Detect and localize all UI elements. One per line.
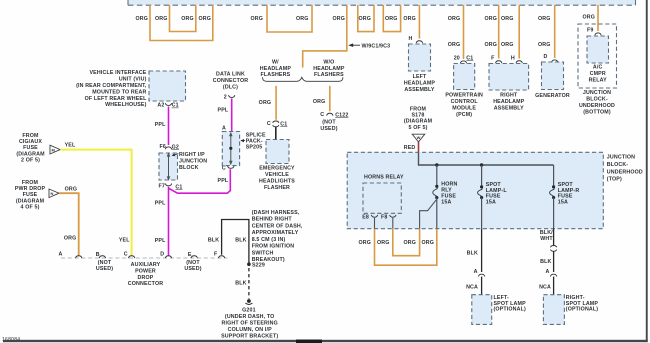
svg-text:C122: C122 [335, 112, 348, 118]
svg-text:JUNCTION: JUNCTION [583, 90, 611, 96]
svg-text:BLK: BLK [235, 237, 246, 243]
svg-text:F: F [214, 252, 218, 258]
svg-text:N: N [51, 191, 54, 196]
wire BLK dashed to ground [248, 268, 250, 299]
horns relay contact arm [420, 200, 437, 229]
svg-text:CIG/AUX: CIG/AUX [19, 139, 42, 145]
connector arc F7 [165, 184, 171, 186]
connector arc right spot lamp [550, 274, 556, 276]
svg-text:A: A [474, 269, 478, 275]
svg-text:ASSEMBLY: ASSEMBLY [404, 87, 434, 93]
svg-text:FLASHERS: FLASHERS [314, 72, 344, 78]
horns relay box [363, 183, 401, 213]
wire ORG to generator [554, 5, 556, 58]
wire ORG loop 2 [267, 5, 312, 32]
svg-text:RIGHT: RIGHT [500, 92, 518, 98]
power source triangle W [412, 134, 425, 142]
svg-text:2 OF 5): 2 OF 5) [21, 157, 40, 163]
connector arc generator [552, 60, 558, 62]
svg-text:ORG: ORG [582, 15, 595, 21]
svg-text:VEHICLE: VEHICLE [265, 172, 289, 178]
svg-text:H: H [409, 36, 413, 42]
auxiliary power drop connector row [61, 257, 228, 259]
svg-text:ORG: ORG [332, 16, 345, 22]
wire ORG to PCM [463, 5, 465, 59]
svg-text:PPL: PPL [155, 200, 166, 206]
svg-text:HORNS RELAY: HORNS RELAY [364, 175, 404, 181]
svg-text:ORG: ORG [198, 16, 211, 22]
svg-text:(TOP): (TOP) [607, 177, 622, 183]
connector arc left spot lamp [478, 274, 484, 276]
svg-text:A/C: A/C [593, 65, 603, 71]
wire ORG to left headlamp [418, 5, 420, 39]
wire BLK to right spot lamp [553, 251, 555, 272]
junction block-underhood (top) box [347, 152, 603, 228]
svg-text:DATA LINK: DATA LINK [216, 72, 245, 78]
svg-text:ORG: ORG [484, 16, 497, 22]
svg-text:FUSE: FUSE [23, 192, 38, 198]
wire stub into left spot lamp [481, 277, 483, 295]
svg-text:C1: C1 [280, 121, 287, 127]
connector arc E [191, 256, 197, 258]
svg-text:APPROXIMATELY: APPROXIMATELY [252, 230, 299, 236]
in-line connector C1 [273, 121, 279, 123]
svg-text:C: C [222, 166, 226, 172]
wire BLK stub into flasher [275, 127, 277, 140]
svg-text:ORG: ORG [135, 16, 148, 22]
powertrain control module box [454, 64, 475, 90]
connector arc B [99, 256, 105, 258]
svg-text:ORG: ORG [448, 16, 461, 22]
svg-text:UNDERHOOD: UNDERHOOD [579, 103, 615, 109]
svg-text:HEADLAMP: HEADLAMP [493, 99, 525, 105]
svg-text:F9: F9 [587, 28, 593, 34]
svg-text:ORG: ORG [448, 42, 461, 48]
svg-text:RIGHT OF STEERING: RIGHT OF STEERING [221, 320, 277, 326]
bus from RED feed [419, 153, 554, 165]
svg-text:ORG: ORG [359, 16, 372, 22]
wire below horn fuse [436, 198, 438, 229]
wire BLK from pin F [222, 220, 249, 263]
svg-text:W/O: W/O [323, 59, 334, 65]
wire below spot lamp-L fuse [481, 198, 483, 229]
connector arc H [516, 61, 522, 63]
connector arc F [496, 61, 502, 63]
connector arc left headlamp [416, 41, 422, 43]
svg-text:USED): USED) [184, 266, 201, 272]
wire ORG loop F8 to relay arm [393, 229, 420, 256]
svg-text:RIGHT I/P: RIGHT I/P [179, 152, 205, 158]
svg-text:5 OF 5): 5 OF 5) [408, 125, 427, 131]
splice S229 [247, 262, 251, 266]
svg-text:WHEELHOUSE): WHEELHOUSE) [105, 102, 146, 108]
svg-text:MOUNTED TO REAR: MOUNTED TO REAR [92, 89, 146, 95]
svg-text:UNDERHOOD: UNDERHOOD [607, 169, 643, 175]
svg-text:(OPTIONAL): (OPTIONAL) [566, 307, 598, 313]
svg-text:C1: C1 [466, 55, 473, 61]
svg-text:ORG: ORG [403, 16, 416, 22]
junction block-underhood (bottom) outer box [578, 24, 617, 88]
wire ORG to A/C cmpr relay [597, 5, 599, 31]
svg-text:W/: W/ [272, 59, 279, 65]
connector arc PCM [460, 61, 466, 63]
left-spot lamp box [472, 295, 492, 325]
svg-text:POWERTRAIN: POWERTRAIN [445, 92, 483, 98]
wire stub E8 [374, 218, 376, 229]
svg-text:(OPTIONAL): (OPTIONAL) [494, 307, 526, 313]
wire ORG [59, 193, 79, 255]
svg-text:CONTROL: CONTROL [451, 99, 479, 105]
right I/P junction block label arrow [173, 154, 179, 156]
svg-text:(DASH HARNESS,: (DASH HARNESS, [252, 210, 300, 216]
svg-text:8.5 CM (3 IN): 8.5 CM (3 IN) [252, 237, 286, 243]
svg-text:ORG: ORG [501, 16, 514, 22]
svg-text:PPL: PPL [218, 108, 229, 114]
connector arc VIU [165, 103, 171, 105]
svg-text:PPL: PPL [155, 238, 166, 244]
svg-text:15A: 15A [441, 199, 451, 205]
spot lamp-R fuse 15A [552, 185, 555, 188]
svg-text:ORG: ORG [64, 236, 77, 242]
svg-text:SP205: SP205 [246, 145, 263, 151]
svg-text:NCA: NCA [466, 284, 478, 290]
svg-text:BLK: BLK [208, 237, 219, 243]
wire ORG w/o flashers branch [329, 86, 331, 111]
connector arc F9 [595, 33, 601, 35]
svg-text:BLK: BLK [467, 251, 478, 257]
svg-text:C: C [267, 121, 271, 127]
svg-text:POWER: POWER [135, 268, 156, 274]
connector arc C [128, 256, 134, 258]
wire BLK to left spot lamp [481, 229, 483, 272]
svg-text:WHT: WHT [540, 236, 553, 242]
wire ORG to right headlamp pin F [498, 5, 500, 59]
svg-text:AUXILIARY: AUXILIARY [131, 262, 161, 268]
connector C122 [327, 113, 333, 115]
wire PPL from VIU [168, 107, 170, 146]
splice pack SP205 box [222, 132, 239, 166]
svg-text:UNIT (VIU): UNIT (VIU) [119, 77, 147, 83]
connector arc F6 [165, 147, 171, 149]
svg-text:(DIAGRAM: (DIAGRAM [16, 198, 45, 204]
svg-text:SWITCH: SWITCH [252, 250, 274, 256]
svg-text:YEL: YEL [65, 143, 76, 149]
svg-text:ORG: ORG [65, 186, 78, 192]
connector arc F8 [390, 215, 396, 217]
wire PPL main run to pin D [168, 187, 170, 256]
svg-text:ORG: ORG [296, 16, 309, 22]
left headlamp assembly box [409, 44, 431, 71]
svg-text:HEADLAMP: HEADLAMP [313, 66, 345, 72]
wire ORG loop outer left [150, 5, 213, 41]
svg-text:ORG: ORG [181, 16, 194, 22]
splice pack internal path with splice dot [230, 135, 232, 163]
svg-text:(NOT: (NOT [322, 120, 336, 126]
svg-text:FROM IGNITION: FROM IGNITION [252, 244, 295, 250]
right headlamp assembly box [489, 64, 529, 91]
wire stub F8 [392, 218, 394, 229]
svg-text:ORG: ORG [421, 240, 434, 246]
svg-text:4 OF 5): 4 OF 5) [20, 204, 39, 210]
svg-text:HEADLAMP: HEADLAMP [260, 66, 292, 72]
connector arc E8 [371, 215, 377, 217]
emergency vehicle headlights flasher box [266, 140, 289, 164]
svg-text:(IN REAR COMPARTMENT,: (IN REAR COMPARTMENT, [76, 83, 147, 89]
horn rly fuse feed [436, 165, 438, 186]
connector arc D [165, 256, 171, 258]
svg-text:(NOT: (NOT [186, 260, 200, 266]
junction dot [435, 163, 438, 166]
brace under headlamp flashers [263, 77, 343, 81]
svg-text:PWR DROP: PWR DROP [15, 186, 46, 192]
svg-text:NCA: NCA [539, 284, 551, 290]
svg-text:SPLICE: SPLICE [246, 132, 266, 138]
svg-text:CMPR: CMPR [590, 71, 606, 77]
vehicle interface unit box [149, 71, 186, 101]
wire ORG to headlamp-flashers brace [303, 5, 347, 68]
svg-text:15A: 15A [486, 200, 496, 206]
svg-text:LEFT: LEFT [413, 74, 427, 80]
svg-text:F7: F7 [159, 183, 165, 189]
svg-text:RELAY: RELAY [589, 78, 608, 84]
ground G201 [247, 299, 251, 303]
svg-text:(UNDER DASH, TO: (UNDER DASH, TO [225, 314, 275, 320]
svg-text:BLOCK-: BLOCK- [586, 96, 608, 102]
svg-text:(DIAGRAM: (DIAGRAM [404, 119, 433, 125]
svg-text:DROP: DROP [138, 275, 154, 281]
svg-text:CONNECTOR: CONNECTOR [128, 281, 163, 287]
svg-text:ORG: ORG [538, 16, 551, 22]
svg-text:MODULE: MODULE [452, 105, 476, 111]
svg-text:USED): USED) [96, 266, 113, 272]
connector arc SP205 C [228, 166, 234, 168]
svg-text:C: C [320, 112, 324, 118]
svg-text:OF LEFT REAR WHEEL: OF LEFT REAR WHEEL [85, 96, 147, 102]
svg-text:PPL: PPL [155, 122, 166, 128]
svg-text:PPL: PPL [218, 178, 229, 184]
svg-text:YEL: YEL [119, 237, 130, 243]
svg-text:BLK: BLK [235, 281, 246, 287]
svg-text:EMERGENCY: EMERGENCY [259, 166, 295, 172]
svg-text:E8: E8 [362, 215, 369, 221]
wire ORG to right headlamp pin H [518, 5, 520, 59]
svg-text:(DIAGRAM: (DIAGRAM [16, 151, 45, 157]
in-line connector [551, 245, 557, 247]
wire PPL from DLC [231, 98, 233, 131]
splice pack label arrow [242, 140, 245, 142]
svg-text:JUNCTION: JUNCTION [607, 155, 635, 161]
connector arc DLC [229, 95, 235, 97]
svg-text:ORG: ORG [155, 16, 168, 22]
page border right [646, 0, 648, 342]
connector arc A [76, 256, 82, 258]
wire YEL [60, 150, 131, 256]
svg-text:ORG: ORG [358, 240, 371, 246]
svg-text:USED): USED) [320, 126, 337, 132]
wire RED [418, 142, 420, 153]
svg-text:ORG: ORG [385, 16, 398, 22]
svg-text:BREAKOUT): BREAKOUT) [252, 257, 285, 263]
A/C cmpr relay box [587, 36, 609, 63]
svg-text:A: A [59, 252, 63, 258]
svg-text:SUPPORT BRACKET): SUPPORT BRACKET) [221, 333, 278, 339]
wire ORG loop E8 to horn fuse [375, 229, 437, 266]
spot lamp-R fuse feed [553, 165, 555, 186]
junction block internal path [168, 156, 170, 178]
svg-text:C: C [124, 252, 128, 258]
wire ORG loop inner left [170, 5, 196, 32]
svg-text:VEHICLE INTERFACE: VEHICLE INTERFACE [90, 70, 147, 76]
svg-text:ORG: ORG [538, 42, 551, 48]
svg-text:PACK-: PACK- [246, 139, 263, 145]
right-spot lamp box [543, 295, 564, 325]
wire PPL branch to splice pack [169, 169, 231, 193]
svg-text:FROM: FROM [22, 180, 39, 186]
svg-text:FLASHERS: FLASHERS [261, 72, 291, 78]
svg-text:G201: G201 [242, 307, 256, 313]
svg-text:C1: C1 [172, 103, 179, 109]
spot lamp-L fuse 15A [480, 185, 483, 188]
svg-text:2: 2 [224, 94, 227, 100]
svg-text:A2: A2 [157, 102, 164, 108]
splice marker W/9C1/9C3 [350, 44, 360, 46]
svg-text:CENTER OF DASH,: CENTER OF DASH, [252, 223, 303, 229]
power source triangle N [49, 189, 59, 198]
svg-text:BLOCK: BLOCK [179, 165, 199, 171]
svg-text:ORG: ORG [250, 16, 263, 22]
svg-text:CONNECTOR: CONNECTOR [213, 78, 248, 84]
wire BLK/WHT from spot lamp-R fuse [553, 229, 555, 246]
svg-text:ORG: ORG [313, 99, 326, 105]
svg-text:FROM: FROM [22, 133, 39, 139]
svg-text:RED: RED [404, 145, 416, 151]
svg-text:FLASHER: FLASHER [264, 185, 290, 191]
svg-text:ORG: ORG [259, 100, 272, 106]
svg-text:15A: 15A [558, 200, 568, 206]
svg-text:ORG: ORG [501, 42, 514, 48]
svg-text:G2: G2 [172, 144, 179, 150]
wire ORG w/ flashers branch [275, 86, 277, 120]
svg-text:(NOT: (NOT [98, 260, 112, 266]
svg-text:D: D [544, 54, 548, 60]
svg-text:BEHIND RIGHT: BEHIND RIGHT [252, 217, 293, 223]
svg-text:A: A [546, 269, 550, 275]
svg-text:(PCM): (PCM) [456, 112, 472, 118]
svg-text:GENERATOR: GENERATOR [535, 93, 570, 99]
spot lamp-L fuse feed [481, 165, 483, 186]
svg-text:ASSEMBLY: ASSEMBLY [494, 105, 524, 111]
svg-text:ORG: ORG [403, 240, 416, 246]
svg-text:BLK: BLK [540, 259, 551, 265]
junction dot [480, 163, 483, 166]
svg-text:F8: F8 [381, 215, 387, 221]
connector arc F [218, 256, 224, 258]
svg-text:HEADLAMP: HEADLAMP [404, 80, 436, 86]
svg-text:S229: S229 [252, 262, 265, 268]
svg-text:BLOCK-: BLOCK- [607, 162, 629, 168]
wire ORG loop 4 [383, 5, 400, 32]
wire stub into right spot lamp [553, 277, 555, 295]
svg-text:C1: C1 [175, 184, 182, 190]
wire below spot lamp-R fuse [553, 198, 555, 229]
wire ORG loop 3 [358, 5, 374, 32]
svg-text:FROM: FROM [410, 106, 427, 112]
svg-text:ORG: ORG [484, 42, 497, 48]
svg-text:S178: S178 [412, 113, 425, 119]
generator box [542, 62, 564, 90]
svg-text:HEADLIGHTS: HEADLIGHTS [259, 178, 295, 184]
svg-text:W/9C1/9C3: W/9C1/9C3 [362, 44, 391, 50]
svg-text:20: 20 [454, 55, 460, 61]
svg-text:(DLC): (DLC) [223, 85, 238, 91]
svg-text:W: W [417, 135, 421, 140]
svg-text:FUSE: FUSE [23, 145, 38, 151]
horn rly fuse 15A [435, 185, 438, 188]
right I/P junction block box [159, 153, 178, 180]
svg-text:H: H [511, 55, 515, 61]
svg-text:ORG: ORG [377, 240, 390, 246]
svg-text:(BOTTOM): (BOTTOM) [583, 109, 611, 115]
power source triangle M [50, 145, 60, 154]
svg-text:JUNCTION: JUNCTION [179, 158, 207, 164]
svg-text:COLUMN, ON I/P: COLUMN, ON I/P [228, 327, 272, 333]
svg-text:A: A [222, 125, 226, 131]
junction block (cut off at top edge) [128, 0, 636, 5]
svg-text:D: D [160, 252, 164, 258]
page border bottom [3, 340, 648, 342]
